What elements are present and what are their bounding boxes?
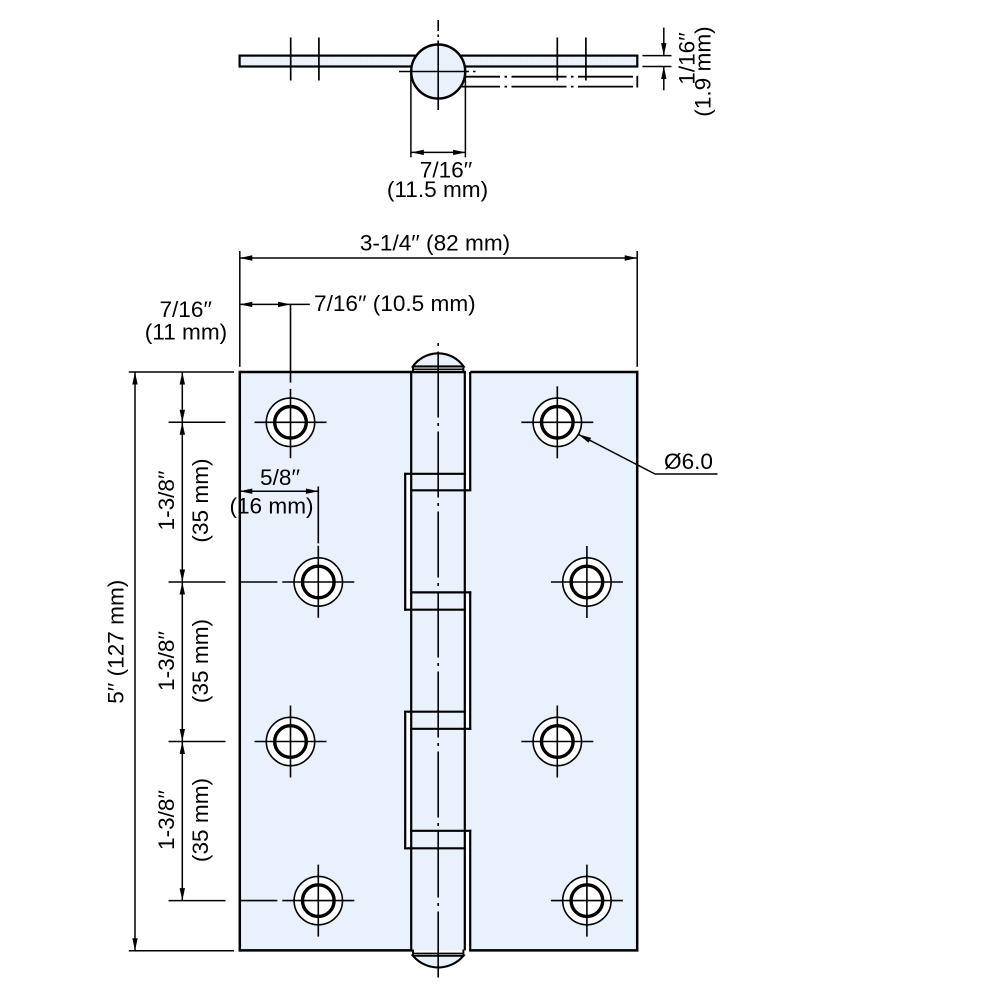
svg-text:(16 mm): (16 mm)	[229, 494, 313, 519]
svg-text:5/8′′: 5/8′′	[260, 465, 300, 490]
svg-text:(11 mm): (11 mm)	[145, 319, 227, 344]
svg-text:(35 mm): (35 mm)	[188, 778, 213, 862]
svg-text:7/16′′: 7/16′′	[159, 297, 211, 322]
svg-text:(35 mm): (35 mm)	[188, 619, 213, 703]
svg-text:(1.9 mm): (1.9 mm)	[691, 26, 716, 116]
svg-text:Ø6.0: Ø6.0	[664, 449, 713, 474]
svg-text:1-3/8′′: 1-3/8′′	[154, 631, 179, 691]
svg-text:1-3/8′′: 1-3/8′′	[154, 790, 179, 850]
svg-text:5′′ (127 mm): 5′′ (127 mm)	[103, 580, 128, 704]
svg-text:(11.5 mm): (11.5 mm)	[387, 177, 488, 202]
svg-text:7/16′′ (10.5 mm): 7/16′′ (10.5 mm)	[314, 291, 476, 316]
svg-text:1-3/8′′: 1-3/8′′	[154, 471, 179, 531]
svg-text:(35 mm): (35 mm)	[188, 458, 213, 542]
svg-text:3-1/4′′ (82 mm): 3-1/4′′ (82 mm)	[360, 230, 510, 255]
